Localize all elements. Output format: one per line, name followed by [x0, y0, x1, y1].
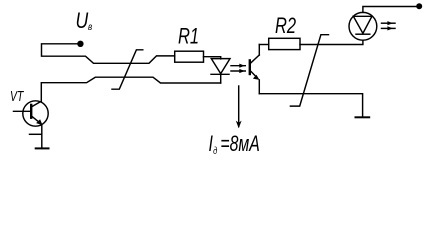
node Uв label — [76, 9, 93, 33]
svg-text:д: д — [213, 145, 217, 156]
optocoupler LED D1 — [211, 59, 230, 83]
emitter stub lead — [30, 133, 42, 135]
optocoupler light arrows — [231, 64, 245, 74]
wire R2 to indicator LED — [300, 40, 363, 44]
resistor R2 — [269, 38, 300, 49]
transistor VT — [14, 101, 49, 149]
resistor R1 — [175, 51, 204, 62]
ground (VT emitter) — [36, 147, 49, 149]
twisted-pair slash mark left — [112, 50, 143, 89]
svg-text:=8мА: =8мА — [220, 133, 259, 157]
label R2 — [275, 14, 296, 39]
phototransistor U1 output — [250, 45, 260, 94]
wire collector to R2 — [259, 44, 268, 46]
svg-text:в: в — [88, 21, 92, 32]
svg-text:U: U — [76, 9, 89, 33]
label R1 — [178, 24, 199, 49]
supply terminal dot — [416, 3, 422, 9]
ground (right) — [356, 116, 370, 118]
wire bottom line: LED cathode back to VT collector (twisted pair lower) — [41, 77, 220, 101]
node Uв terminal dot — [77, 41, 83, 47]
slash mark right — [290, 35, 328, 106]
wire emitter rail to ground — [259, 94, 362, 117]
wire top line: Uв terminal to R1 (twisted pair upper) — [42, 44, 175, 64]
svg-text:VT: VT — [10, 88, 24, 104]
indicator LED HL1 — [349, 12, 377, 40]
svg-text:R1: R1 — [178, 24, 199, 49]
current arrow Id — [236, 86, 242, 128]
wire R1 to LED anode — [204, 57, 221, 59]
label VT — [10, 88, 24, 104]
wire LED top to supply terminal — [363, 7, 419, 13]
indicator LED light arrows — [382, 21, 396, 30]
svg-text:R2: R2 — [275, 14, 296, 39]
label Id = 8mA — [209, 133, 260, 157]
